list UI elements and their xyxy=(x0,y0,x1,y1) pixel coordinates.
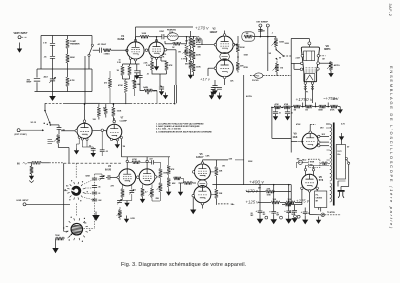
pin V2 plate top xyxy=(155,40,158,43)
svg-text:10: 10 xyxy=(289,211,291,213)
label val e xyxy=(103,107,107,113)
wire attenuator rail 2 segs xyxy=(52,36,54,92)
pin CRT right mid xyxy=(317,62,320,65)
wire chain col links xyxy=(190,46,192,72)
svg-text:1W: 1W xyxy=(103,110,106,112)
tube V6 rectifier xyxy=(302,174,318,190)
wire NE1 leads xyxy=(297,162,306,168)
tube V5b xyxy=(194,186,211,203)
wire cap col dashed xyxy=(95,174,103,211)
ground mid right xyxy=(217,87,222,99)
svg-text:60c: 60c xyxy=(337,154,340,156)
ground divider end xyxy=(338,107,343,114)
wire V6 cathode down xyxy=(302,189,317,214)
pin V9 r1 xyxy=(318,135,320,137)
switch S4 sync sel xyxy=(44,110,52,126)
resistor R38 1M grid xyxy=(179,181,197,184)
wire C10b down xyxy=(101,152,103,156)
tube V6b clamp xyxy=(107,124,122,139)
terminal J3 sweep xyxy=(266,24,269,27)
ground T1 centertap xyxy=(339,133,344,145)
svg-text:1W: 1W xyxy=(222,166,225,168)
svg-text:+17 v: +17 v xyxy=(200,77,211,82)
switch S2 sweep select xyxy=(269,49,285,59)
resistor R16 xyxy=(161,61,173,74)
label val am xyxy=(152,90,157,93)
ground C17 xyxy=(270,215,277,224)
pin V6 b3 xyxy=(316,187,318,189)
label val ap xyxy=(347,147,350,149)
ground C30 xyxy=(285,114,290,121)
svg-text:470K: 470K xyxy=(196,41,201,44)
capacitor C2 input coupling xyxy=(43,43,55,46)
svg-text:COIL: COIL xyxy=(169,32,175,34)
svg-text:15K: 15K xyxy=(219,171,223,173)
resistor R34 xyxy=(282,203,302,206)
capacitor C7 bypass xyxy=(134,64,139,73)
pin V5b bottom xyxy=(201,202,204,205)
pot arrow R44 xyxy=(68,233,73,238)
svg-text:AC ONLY: AC ONLY xyxy=(98,43,107,46)
wire S5 ne spokes xyxy=(84,179,95,200)
wire focus dashes xyxy=(250,75,291,77)
pin CRT left mid xyxy=(301,62,304,65)
pin CRT base 1 xyxy=(304,82,306,84)
wire R49 down xyxy=(152,198,160,202)
ground R43 chevron xyxy=(29,174,34,183)
resistor R29 1M xyxy=(293,105,300,112)
svg-text:220K: 220K xyxy=(184,53,189,55)
svg-text:15K: 15K xyxy=(273,199,277,201)
inductor L1 peaking coil xyxy=(167,29,178,41)
pin V3V4 mid xyxy=(137,176,140,179)
svg-text:FOCUS: FOCUS xyxy=(252,80,259,82)
switch S3 line xyxy=(345,158,350,165)
svg-text:.002: .002 xyxy=(98,200,102,202)
tube V6a clamp xyxy=(77,123,92,138)
label C18 val xyxy=(292,212,295,216)
pin V9 r2 xyxy=(318,141,320,143)
svg-text:1M: 1M xyxy=(123,146,126,148)
resistor R3 4.7M xyxy=(66,77,75,86)
transformer T1 secondary winding xyxy=(330,183,332,202)
wire V2 k joins xyxy=(152,70,167,86)
ground R44 xyxy=(52,247,58,254)
margin title ENSEMBLAGE xyxy=(389,66,394,230)
resistor R18 col b xyxy=(104,104,107,117)
ground V4 k xyxy=(140,197,145,204)
wire attenuator mid rail xyxy=(37,68,92,70)
wire ecap drop 3 xyxy=(288,184,290,209)
svg-text:750K: 750K xyxy=(55,235,60,237)
svg-text:220K: 220K xyxy=(248,161,253,163)
wire S2 dashed to rail xyxy=(283,55,291,57)
wire V3b k down xyxy=(224,79,226,85)
wire pot to S2 xyxy=(275,47,277,50)
pin V6 b2 xyxy=(308,190,310,192)
wire V3 grid left xyxy=(106,176,117,178)
CRT deflection plate box xyxy=(304,51,315,61)
pin V2 k xyxy=(151,56,162,60)
label V9 HV RECT xyxy=(293,133,298,139)
svg-text:10W: 10W xyxy=(333,99,337,101)
svg-text:6AN8: 6AN8 xyxy=(118,37,125,41)
ground V3 k xyxy=(124,201,129,207)
label 22K plate xyxy=(229,158,233,160)
pin V1 k1 xyxy=(129,57,131,59)
connector chevrons base1 xyxy=(304,86,307,90)
label val v xyxy=(156,198,160,200)
transformer T1 shield box xyxy=(336,145,345,180)
svg-text:4.7: 4.7 xyxy=(145,191,148,194)
svg-text:1M: 1M xyxy=(294,110,297,112)
handwritten +125V xyxy=(246,199,260,204)
resistor R43 xyxy=(30,163,33,174)
connector chevrons base2 xyxy=(311,86,314,90)
capacitor trimmer C20 xyxy=(100,174,105,181)
label V7 CLAMP xyxy=(120,118,128,123)
wire V3 plate stub xyxy=(126,157,128,169)
label val m xyxy=(244,66,249,69)
resistor R24 220K xyxy=(236,44,245,53)
transformer T1 primary winding xyxy=(330,124,332,181)
resistor R11 cathode xyxy=(117,66,125,75)
wire S5 left xyxy=(64,190,68,192)
wire S5 to caps xyxy=(85,188,92,194)
svg-text:100K: 100K xyxy=(196,67,201,69)
ground below J1 xyxy=(17,43,22,53)
ground C9 xyxy=(159,89,164,96)
resistor R27 sync pot xyxy=(272,37,285,47)
label V3 6AU8 xyxy=(105,165,112,171)
svg-text:MMF: MMF xyxy=(27,82,32,84)
svg-text:S2-B: S2-B xyxy=(285,43,290,45)
resistor R47 xyxy=(121,189,124,198)
pin V3a plate xyxy=(223,34,226,37)
cathode ellipse V5 xyxy=(198,180,207,188)
pin V1 plate top xyxy=(134,39,137,42)
ground astig pot xyxy=(328,71,333,78)
wire hv row xyxy=(272,106,291,108)
tube V3 sweep osc xyxy=(119,169,136,186)
wire V2 out to stage2 xyxy=(167,50,176,85)
resistor R21 xyxy=(184,49,192,58)
capacitor C8 gain xyxy=(137,70,142,78)
wire hv box frame xyxy=(272,107,291,138)
label val u xyxy=(145,191,148,194)
svg-text:470K: 470K xyxy=(284,103,289,106)
capacitor C26 grid xyxy=(108,175,110,180)
svg-text:.1: .1 xyxy=(135,190,137,192)
svg-text:3. K = 1000 -- M = 1 000 000: 3. K = 1000 -- M = 1 000 000 xyxy=(156,128,181,130)
wire plate node xyxy=(136,37,162,42)
svg-text:3B+: 3B+ xyxy=(231,204,236,206)
resistor R13 470K lower xyxy=(118,80,128,93)
resistor R6 1K xyxy=(172,42,181,49)
notes line 3 xyxy=(156,128,181,130)
svg-text:.01: .01 xyxy=(147,74,150,76)
wire sweep top rail xyxy=(121,156,170,158)
pin V3 grid xyxy=(117,176,120,179)
label val t xyxy=(135,190,137,192)
pin CRT left low xyxy=(300,68,303,71)
wire C25 out xyxy=(154,162,161,168)
svg-text:220K: 220K xyxy=(261,31,266,33)
wire chain links xyxy=(193,37,195,76)
svg-text:GAIN: GAIN xyxy=(143,86,149,89)
svg-text:ASTIG: ASTIG xyxy=(334,64,340,67)
wire R44 gnd xyxy=(55,239,57,247)
label V1 6AN8 xyxy=(118,34,125,41)
capacitor C28 trim2 xyxy=(117,199,122,205)
pin between V1 V2 xyxy=(145,49,148,52)
wire S6 to caps xyxy=(84,211,95,229)
pin V6 t2 xyxy=(312,169,314,171)
tube V3a upper xyxy=(216,36,233,53)
resistor R9 chain b xyxy=(192,51,201,60)
label val ah xyxy=(261,31,266,33)
wire 60hz to frame xyxy=(42,162,64,164)
svg-text:12BH7: 12BH7 xyxy=(210,31,218,34)
wire gain pot xyxy=(140,77,157,90)
resistor R50 100K xyxy=(159,168,168,177)
wire V3 k join xyxy=(123,194,132,201)
wire S4 pole up xyxy=(44,103,46,110)
resistor R7 V POS pot xyxy=(181,45,188,61)
wire sweep frame left xyxy=(63,163,65,231)
resistor R10 chain c xyxy=(192,63,201,72)
pins V6a bottom xyxy=(78,136,88,140)
pin CRT right upper xyxy=(317,55,320,58)
pin V3a left xyxy=(214,43,217,46)
pin CRT top cap xyxy=(308,42,311,45)
pin V5b left xyxy=(192,194,195,197)
AC plug P1 xyxy=(338,190,345,198)
wire attenuator rail 3 xyxy=(67,36,69,92)
svg-text:1M: 1M xyxy=(305,110,308,112)
svg-text:.01: .01 xyxy=(98,193,101,195)
wire V5a plate up xyxy=(202,160,228,162)
ground V5 grid ret xyxy=(178,183,183,196)
wire plug other lead xyxy=(338,181,346,187)
pin V6a top xyxy=(83,120,86,123)
wire long rail y104 xyxy=(45,102,176,104)
svg-text:470K: 470K xyxy=(132,158,137,161)
svg-text:12AU7: 12AU7 xyxy=(196,156,204,159)
CRT internal plate dashes xyxy=(306,68,317,72)
terminal J5 ext sync xyxy=(17,129,20,132)
filter box FL1 xyxy=(315,191,327,208)
pin V6b top xyxy=(113,120,116,123)
resistor R19 100K xyxy=(112,104,122,120)
pins V6b bottom xyxy=(110,136,122,141)
label C17 val xyxy=(277,211,280,216)
tube V1 pentode section xyxy=(127,42,144,59)
svg-text:.1: .1 xyxy=(272,33,274,35)
label val ab xyxy=(222,166,225,168)
wire base to divider xyxy=(305,90,312,107)
switch S1a attenuator xyxy=(88,44,94,56)
resistor R35 22K 10W xyxy=(266,188,275,196)
wire J5 arrow xyxy=(20,129,44,131)
svg-text:EXT SWEEP: EXT SWEEP xyxy=(257,22,269,24)
label val ao xyxy=(341,124,346,126)
resistor R55 hv a xyxy=(274,103,281,109)
wire 125 rail xyxy=(258,201,302,203)
resistor R4 grid stopper xyxy=(103,49,111,56)
ground C10a xyxy=(91,150,96,157)
neon lamp NE1 xyxy=(297,159,303,165)
svg-text:2.2K: 2.2K xyxy=(146,65,151,67)
wire C6 to L1 xyxy=(164,36,167,38)
pot R49 xyxy=(149,188,154,197)
capacitor C9 xyxy=(159,86,164,89)
label val o xyxy=(296,58,301,60)
wire gain pot down xyxy=(156,91,158,104)
wire sweep frame top xyxy=(64,162,122,164)
svg-text:470K: 470K xyxy=(275,103,280,106)
electrolytic C14 xyxy=(290,209,300,219)
wire double stub x176 xyxy=(175,85,177,103)
label C14 val xyxy=(289,211,291,213)
pin V3b left xyxy=(214,67,217,70)
svg-text:470K: 470K xyxy=(330,109,335,112)
label val i xyxy=(163,53,166,59)
wire C14 stub xyxy=(294,205,296,209)
page number 3AF-2 xyxy=(388,4,392,17)
wire V6a plate up xyxy=(84,104,86,120)
wire V6a grid wire xyxy=(61,130,75,132)
label val ai xyxy=(272,33,274,35)
wire S5 S6 link xyxy=(75,204,77,217)
svg-text:.01: .01 xyxy=(291,113,293,115)
component FOCUS oval xyxy=(255,73,263,78)
ground R45 xyxy=(120,216,136,223)
ground V6b cathode xyxy=(115,141,120,148)
svg-text:+400 v: +400 v xyxy=(249,180,264,186)
svg-text:.1: .1 xyxy=(98,179,100,181)
svg-text:470: 470 xyxy=(104,82,107,85)
label val x xyxy=(86,176,91,178)
pot R33 astig xyxy=(327,62,340,71)
CRT gun rect xyxy=(305,74,315,82)
label 60Hz xyxy=(17,163,27,166)
capacitor C4 ganged adj xyxy=(44,76,57,84)
capacitor C11 k bypass xyxy=(212,80,217,88)
wire R46 ends xyxy=(127,161,151,163)
wire V1 cathode drops xyxy=(123,59,140,66)
label val b xyxy=(144,63,149,65)
capacitor C3 xyxy=(44,56,56,58)
svg-text:1 M: 1 M xyxy=(43,43,47,45)
wire chain col top xyxy=(190,31,192,37)
svg-text:VERT. INPUT: VERT. INPUT xyxy=(14,33,29,35)
wire attenuator top rail xyxy=(41,35,92,37)
svg-text:+275 v: +275 v xyxy=(296,199,310,204)
label val c xyxy=(132,81,137,83)
label val f xyxy=(93,119,97,121)
svg-text:3RP1: 3RP1 xyxy=(324,47,331,51)
svg-text:TRIMMER: TRIMMER xyxy=(70,44,80,46)
svg-text:+170 v: +170 v xyxy=(245,189,259,194)
svg-text:1M: 1M xyxy=(322,59,325,61)
resistor R32 470K xyxy=(330,105,338,112)
pin CRT left upper xyxy=(301,55,304,58)
pot R28 intensity xyxy=(273,59,284,76)
resistor R20 1M xyxy=(185,37,192,46)
wire rail to V9 xyxy=(291,141,297,143)
label V3 12BH7 xyxy=(210,28,218,34)
pin mid clamp xyxy=(101,129,103,131)
ground C14 xyxy=(292,214,298,223)
svg-text:+125 v: +125 v xyxy=(246,199,260,204)
svg-text:1M: 1M xyxy=(246,33,249,35)
capacitor C19 sync xyxy=(57,128,66,132)
svg-text:1M: 1M xyxy=(185,41,188,43)
svg-text:V8: V8 xyxy=(326,44,330,48)
ground chain col xyxy=(188,72,193,79)
svg-text:3AF-2: 3AF-2 xyxy=(388,4,392,17)
svg-text:15K: 15K xyxy=(219,193,223,195)
svg-text:100K: 100K xyxy=(142,33,147,35)
pin V1 grid xyxy=(126,49,128,52)
label C16 val xyxy=(263,211,266,216)
resistor R2 500K xyxy=(66,54,75,63)
pin V5a left xyxy=(192,171,195,174)
notes line 1 xyxy=(156,122,204,125)
filament arrow V9 xyxy=(298,141,304,143)
CRT V8 3RP1 envelope xyxy=(301,47,319,82)
terminal J1 vertical input xyxy=(18,36,27,39)
svg-text:S3: S3 xyxy=(66,186,68,188)
label V8 3RP1 xyxy=(324,44,331,51)
svg-text:V. POS: V. POS xyxy=(181,59,188,61)
ground attenuator bottom xyxy=(49,92,56,102)
label val af xyxy=(333,99,337,101)
pin V4 plate xyxy=(146,160,148,162)
wire V5 pins to rail xyxy=(210,172,216,195)
svg-text:3.3K: 3.3K xyxy=(117,62,122,64)
svg-text:MF: MF xyxy=(263,214,266,216)
svg-text:TO HTRS: TO HTRS xyxy=(327,212,335,214)
pot R51 xyxy=(157,178,163,192)
resistor R25 39K xyxy=(236,62,244,71)
label val n xyxy=(230,81,234,83)
wire J4 dashed heaters xyxy=(325,212,341,215)
handwritten +1750V xyxy=(296,97,313,102)
svg-text:.02: .02 xyxy=(89,146,92,148)
terminal J6 hor input xyxy=(23,203,26,206)
resistor R14 GAIN pot xyxy=(143,86,153,94)
wire V3 right rail xyxy=(234,36,238,73)
label val d xyxy=(147,74,150,76)
svg-text:6.8K: 6.8K xyxy=(206,156,211,158)
junction dots L1 out xyxy=(186,36,195,38)
transformer T1 core xyxy=(333,123,335,206)
resistor R15 xyxy=(146,61,154,70)
svg-text:+170 v: +170 v xyxy=(195,26,209,31)
label C15 val xyxy=(308,213,310,215)
resistor R46 4.7K xyxy=(132,158,141,164)
heater connector J4 xyxy=(321,213,325,217)
svg-text:820K: 820K xyxy=(86,176,91,178)
capacitor C22 xyxy=(92,186,100,189)
svg-text:1 MEG: 1 MEG xyxy=(104,53,111,55)
svg-text:100K: 100K xyxy=(117,111,122,113)
svg-text:5Y3: 5Y3 xyxy=(319,179,324,182)
pin V3a right xyxy=(233,43,236,46)
svg-text:470K: 470K xyxy=(244,66,249,69)
